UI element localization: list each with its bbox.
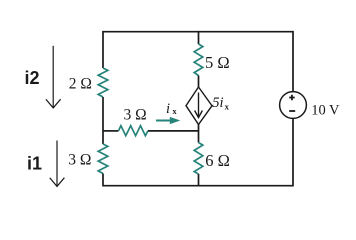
wire 5ohm to diamond bbox=[198, 76, 200, 88]
wire diamond to node bbox=[198, 125, 200, 143]
wire left branch middle bbox=[102, 97, 104, 144]
svg-text:3 Ω: 3 Ω bbox=[68, 152, 91, 169]
svg-text:5i: 5i bbox=[212, 95, 223, 111]
wire middle branch top bbox=[198, 31, 200, 44]
current arrow i1 bbox=[50, 141, 65, 187]
svg-text:i: i bbox=[166, 101, 170, 117]
wire right branch lower bbox=[292, 118, 294, 186]
svg-text:3 Ω: 3 Ω bbox=[124, 107, 147, 124]
current arrow i2 bbox=[46, 46, 61, 108]
svg-text:i2: i2 bbox=[25, 68, 40, 88]
wire bottom bbox=[103, 185, 293, 187]
wire middle node row bbox=[103, 130, 119, 132]
svg-text:2 Ω: 2 Ω bbox=[69, 76, 92, 93]
resistor 3 ohm (horizontal) bbox=[119, 126, 149, 136]
voltage source plus bbox=[289, 95, 295, 100]
voltage source minus bbox=[289, 110, 295, 112]
resistor 5 ohm bbox=[194, 44, 203, 76]
wire middle row right part bbox=[148, 130, 199, 132]
resistor 2 ohm bbox=[98, 68, 108, 97]
current arrow ix (teal) bbox=[156, 117, 180, 124]
dependent source 5ix diamond bbox=[186, 87, 212, 125]
svg-text:6 Ω: 6 Ω bbox=[205, 151, 230, 170]
svg-text:10 V: 10 V bbox=[311, 103, 340, 119]
resistor 6 ohm bbox=[194, 143, 203, 175]
wire right branch upper bbox=[292, 31, 294, 92]
svg-text:i1: i1 bbox=[27, 154, 42, 174]
svg-text:5 Ω: 5 Ω bbox=[205, 53, 230, 72]
wire 6ohm to bottom bbox=[198, 174, 200, 187]
wire left branch lower bbox=[102, 174, 104, 187]
voltage source 10V circle bbox=[280, 92, 307, 119]
wire left branch upper bbox=[102, 31, 104, 68]
wire top: node A to node B bbox=[103, 31, 293, 33]
svg-text:x: x bbox=[225, 102, 230, 112]
svg-text:x: x bbox=[172, 106, 177, 116]
resistor 3 ohm (left vertical) bbox=[98, 144, 108, 174]
dependent source arrow bbox=[195, 93, 203, 118]
